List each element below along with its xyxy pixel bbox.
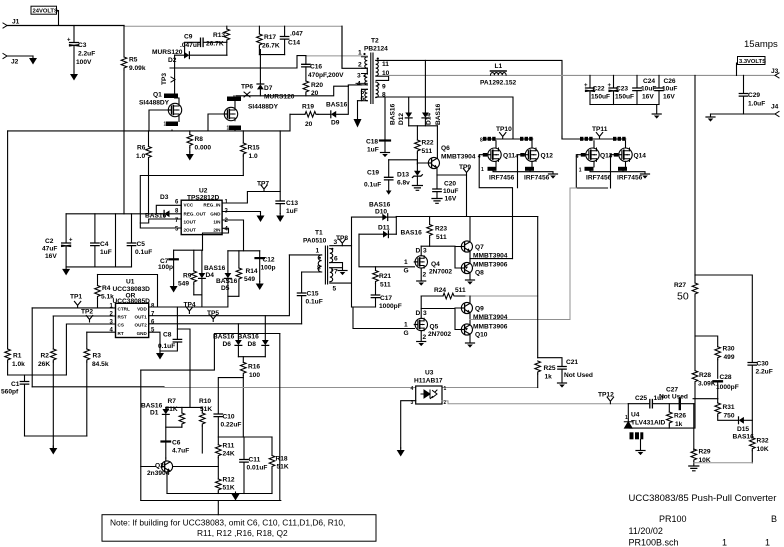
ground U1 arrow xyxy=(156,351,164,360)
svg-text:J4: J4 xyxy=(771,104,779,111)
svg-text:511: 511 xyxy=(436,234,447,241)
svg-text:1: 1 xyxy=(404,259,408,266)
wire Q6 emitter to TP9 xyxy=(437,175,467,217)
wire T2 pin8 net xyxy=(376,97,513,136)
svg-text:549: 549 xyxy=(178,281,189,288)
svg-text:11/20/02: 11/20/02 xyxy=(629,526,663,536)
wire T1 pin5 xyxy=(330,282,351,284)
capacitor C11 xyxy=(240,437,268,494)
svg-text:D: D xyxy=(416,310,421,317)
svg-text:BAS16: BAS16 xyxy=(213,334,235,341)
svg-text:5.1k: 5.1k xyxy=(101,294,114,301)
svg-text:1: 1 xyxy=(404,322,408,329)
node TP9 xyxy=(459,164,471,175)
transistor Q2 (2n3904) xyxy=(147,458,173,494)
svg-text:L1: L1 xyxy=(495,63,503,70)
wire output cap bottom bus xyxy=(590,105,659,115)
resistor R24 xyxy=(421,287,466,299)
svg-text:H11AB17: H11AB17 xyxy=(414,378,443,385)
T1 pin numbers xyxy=(316,239,339,293)
capacitor C13 xyxy=(276,200,298,215)
transistor Q4 (2N7002) xyxy=(404,246,453,281)
resistor R12 xyxy=(216,477,235,494)
ground C7 arrow xyxy=(170,284,178,293)
svg-text:R10: R10 xyxy=(199,398,211,405)
svg-text:MMBT3906: MMBT3906 xyxy=(473,324,508,331)
svg-text:511: 511 xyxy=(455,287,466,294)
svg-text:TP5: TP5 xyxy=(207,310,219,317)
capacitor C24 xyxy=(633,75,657,104)
svg-text:560pf: 560pf xyxy=(1,389,19,396)
wire U2 2IN route xyxy=(203,228,229,250)
svg-text:100p: 100p xyxy=(261,265,276,272)
ground output caps xyxy=(652,114,661,119)
svg-text:D7: D7 xyxy=(264,85,273,92)
wire T2 pin1 stub xyxy=(362,55,368,57)
wire U1 OUT2 pin6 xyxy=(149,323,302,325)
svg-text:R30: R30 xyxy=(723,346,735,353)
svg-text:100V: 100V xyxy=(76,59,92,66)
svg-text:D13: D13 xyxy=(397,172,409,179)
svg-text:D12: D12 xyxy=(398,113,405,125)
svg-text:D2: D2 xyxy=(168,57,177,64)
node TP3 xyxy=(161,73,175,85)
svg-text:10uF: 10uF xyxy=(662,86,677,93)
svg-text:C1: C1 xyxy=(11,381,20,388)
svg-text:C4: C4 xyxy=(100,241,109,248)
ground Q4 xyxy=(417,281,426,286)
svg-text:3: 3 xyxy=(357,73,361,80)
resistor R25 xyxy=(535,361,556,388)
transistor Q1 (SI4488DY) xyxy=(139,92,182,128)
resistor R5 xyxy=(121,57,146,73)
transistor Q14 (IRF7456) xyxy=(613,137,646,182)
svg-text:3: 3 xyxy=(423,310,427,317)
svg-text:3: 3 xyxy=(423,248,427,255)
svg-text:C13: C13 xyxy=(286,200,298,207)
capacitor C17 xyxy=(371,295,401,310)
svg-text:TP7: TP7 xyxy=(257,181,269,188)
svg-text:C11: C11 xyxy=(249,457,261,464)
capacitor C23 xyxy=(608,75,635,104)
svg-text:C28: C28 xyxy=(720,374,732,381)
ground box arrow xyxy=(232,492,240,501)
svg-text:GND: GND xyxy=(137,331,148,336)
svg-text:IRF7456: IRF7456 xyxy=(586,175,612,182)
ground cap bus arrow xyxy=(62,267,70,276)
svg-text:84.5k: 84.5k xyxy=(92,361,109,368)
svg-text:6: 6 xyxy=(151,319,155,325)
wire U1 OUT1 pin7 xyxy=(149,255,290,316)
diode D4 (BAS16) xyxy=(199,250,226,295)
capacitor C20 xyxy=(433,175,459,203)
svg-text:100p: 100p xyxy=(158,264,173,271)
svg-text:C19: C19 xyxy=(367,170,379,177)
title text xyxy=(629,493,778,547)
wire Q13 Q14 drain bus xyxy=(562,136,626,139)
svg-text:1: 1 xyxy=(722,538,727,547)
resistor R21 xyxy=(373,267,392,295)
T2 pin numbers xyxy=(357,50,390,103)
svg-text:TLV431AID: TLV431AID xyxy=(631,420,666,427)
wire drain2 net y95.8 xyxy=(236,86,348,96)
svg-text:1IN: 1IN xyxy=(213,220,221,225)
wire feedback drop from rail xyxy=(694,75,696,275)
transistor Q11 (IRF7456) xyxy=(480,137,515,182)
wire T2 pin4 stub xyxy=(348,85,361,86)
wire R19 left drop xyxy=(289,114,291,131)
wire T2 pins 5-6 tie xyxy=(358,89,362,100)
wire R5 bottom to VCC bus xyxy=(123,70,125,214)
svg-text:1: 1 xyxy=(625,415,628,421)
T2 polarity dots xyxy=(363,53,379,86)
svg-text:+: + xyxy=(67,38,71,44)
svg-text:8: 8 xyxy=(151,303,155,309)
svg-text:47uF: 47uF xyxy=(42,246,57,253)
capacitor C7 xyxy=(158,250,178,284)
svg-text:D8: D8 xyxy=(248,341,257,348)
transistor Q9 (MMBT3904) xyxy=(455,296,508,321)
svg-text:TP8: TP8 xyxy=(336,235,348,242)
wire Q3 gate route xyxy=(208,114,224,131)
svg-text:VCC: VCC xyxy=(184,203,194,208)
svg-text:26.7K: 26.7K xyxy=(206,41,224,48)
wire D5 R14 block xyxy=(228,251,260,307)
svg-text:R11: R11 xyxy=(223,443,235,450)
wire J4 ground run xyxy=(711,113,776,115)
wire R9 D4 block xyxy=(174,250,203,307)
svg-text:11: 11 xyxy=(382,61,389,68)
svg-text:Q11: Q11 xyxy=(503,153,515,160)
svg-text:16V: 16V xyxy=(642,94,654,101)
wire R5 drop from rail xyxy=(123,26,125,58)
wire pin1 grey xyxy=(306,55,362,57)
wire U4 ref net xyxy=(629,427,694,429)
diode D6 (BAS16) xyxy=(213,324,242,357)
capacitor C12 xyxy=(256,251,276,282)
svg-text:PR100B.sch: PR100B.sch xyxy=(629,538,679,547)
node TP1 xyxy=(70,294,82,308)
svg-text:549: 549 xyxy=(244,276,255,283)
resistor R28 xyxy=(692,371,716,388)
svg-text:2: 2 xyxy=(358,62,362,69)
svg-text:6.8v: 6.8v xyxy=(397,180,410,187)
svg-text:1: 1 xyxy=(481,167,484,173)
wire Q2 base link xyxy=(141,466,156,468)
ground Q13 Q14 xyxy=(641,174,650,179)
capacitor C22 xyxy=(584,75,610,104)
svg-text:C14: C14 xyxy=(288,40,300,47)
wire C19 node to R22 base xyxy=(389,159,418,161)
svg-text:1k: 1k xyxy=(545,374,553,381)
svg-text:Not Used: Not Used xyxy=(659,394,688,401)
svg-text:+: + xyxy=(69,238,73,244)
svg-text:MMBT3906: MMBT3906 xyxy=(473,262,508,269)
svg-text:Q14: Q14 xyxy=(634,153,647,160)
capacitor C10 xyxy=(214,378,243,445)
svg-text:1.0uF: 1.0uF xyxy=(748,101,765,108)
svg-text:4: 4 xyxy=(357,81,361,88)
resistor R3 xyxy=(84,332,109,436)
node TP10 xyxy=(496,126,512,139)
Q13 Q14 gate pads xyxy=(576,153,619,160)
svg-text:R25: R25 xyxy=(544,365,556,372)
svg-text:150uF: 150uF xyxy=(591,94,610,101)
svg-text:Q1: Q1 xyxy=(153,92,162,99)
svg-text:TP2: TP2 xyxy=(81,308,93,315)
ground at J4 run xyxy=(710,114,712,117)
svg-text:UCC38085D: UCC38085D xyxy=(113,298,151,305)
ground Q5 xyxy=(417,342,426,347)
svg-text:Q12: Q12 xyxy=(541,153,554,160)
capacitor C9 xyxy=(180,34,227,56)
svg-text:C9: C9 xyxy=(184,34,193,41)
svg-text:3.3VOLTS: 3.3VOLTS xyxy=(739,59,766,65)
wire VCC bus y213.8 xyxy=(66,213,164,215)
svg-text:1uF: 1uF xyxy=(100,249,112,256)
wire R27 to divider xyxy=(694,275,696,428)
wire Q13 Q14 sources xyxy=(590,161,645,174)
svg-text:R13: R13 xyxy=(213,32,225,39)
wire Q11 Q12 drain bus xyxy=(484,137,533,139)
wire Q11 Q12 sources xyxy=(493,161,553,174)
svg-text:7: 7 xyxy=(151,311,155,317)
Q11 Q12 gate pads xyxy=(478,153,525,160)
wire U3 pin3 to ground xyxy=(401,401,416,448)
IC U2 TPS2812D xyxy=(181,188,222,235)
svg-text:R21: R21 xyxy=(379,273,391,280)
ground T2 pin6 arrow xyxy=(354,101,362,128)
svg-text:1: 1 xyxy=(164,122,167,128)
wire Q7 Q8 emitter node to gates xyxy=(470,258,513,260)
svg-text:0.01uF: 0.01uF xyxy=(247,465,268,472)
capacitor C26 xyxy=(655,75,678,104)
svg-text:U3: U3 xyxy=(425,370,434,377)
wire U1 VDD pin8 xyxy=(149,306,228,308)
svg-text:1.0k: 1.0k xyxy=(12,361,25,368)
resistor R20 xyxy=(303,81,323,97)
svg-text:PA0510: PA0510 xyxy=(303,238,327,245)
resistor R11 xyxy=(216,443,235,480)
svg-text:1: 1 xyxy=(358,50,362,57)
svg-text:BAS16: BAS16 xyxy=(204,265,226,272)
svg-text:R27: R27 xyxy=(674,282,686,289)
diode D9 (BAS16) xyxy=(318,86,348,126)
svg-text:BAS16: BAS16 xyxy=(733,434,755,441)
svg-text:10K: 10K xyxy=(757,446,769,453)
wire 24V rail right (thin grey) xyxy=(124,25,342,27)
svg-text:24VOLTS: 24VOLTS xyxy=(33,9,58,15)
svg-text:9: 9 xyxy=(382,84,386,91)
wire bottom left bus xyxy=(25,436,87,448)
svg-text:1000pF: 1000pF xyxy=(716,384,739,391)
svg-text:D10: D10 xyxy=(375,209,387,216)
svg-text:TP11: TP11 xyxy=(592,126,608,133)
ground Q11 Q12 xyxy=(549,174,558,179)
transformer T1 (PA0510) xyxy=(303,230,333,284)
svg-text:C29: C29 xyxy=(748,92,760,99)
svg-text:C15: C15 xyxy=(307,291,319,298)
svg-text:R26: R26 xyxy=(674,413,686,420)
wire Q11 Q12 gate route xyxy=(479,155,525,259)
wire D11 anode to Q4 gate xyxy=(359,234,415,267)
wire U2 1IN route xyxy=(222,220,243,251)
capacitor C25 xyxy=(628,395,694,408)
svg-text:24K: 24K xyxy=(223,451,235,458)
resistor R13 xyxy=(206,26,230,55)
svg-text:BAS16: BAS16 xyxy=(369,202,391,209)
wire Q4 drain bus to Q7 Q8 bases xyxy=(421,246,461,268)
wire bottom ground bus of box xyxy=(167,493,272,495)
svg-text:16V: 16V xyxy=(663,94,675,101)
svg-text:MMBT3904: MMBT3904 xyxy=(441,154,476,161)
resistor R4 xyxy=(95,275,158,308)
svg-text:C27: C27 xyxy=(666,387,678,394)
resistor R30 xyxy=(715,346,735,379)
capacitor C5 xyxy=(127,214,152,267)
ground C20 xyxy=(432,199,442,204)
transistor Q12 (IRF7456) xyxy=(520,137,553,182)
transistor Q6 (MMBT3904) xyxy=(417,126,475,175)
IC U1 UCC38083D xyxy=(113,279,151,338)
ground C21 xyxy=(558,383,567,388)
wire U1 GND pin5 xyxy=(149,332,160,351)
transformer T2 (PB2124) xyxy=(362,38,389,104)
node TP8 xyxy=(336,235,348,246)
svg-text:15amps: 15amps xyxy=(744,39,778,50)
capacitor C28 xyxy=(714,374,739,399)
svg-text:R16: R16 xyxy=(248,364,260,371)
svg-text:B: B xyxy=(771,514,777,524)
resistor R22 xyxy=(415,126,434,164)
svg-text:750: 750 xyxy=(724,413,735,420)
wire ref net drop x693.8 xyxy=(693,404,695,450)
svg-text:IRF7456: IRF7456 xyxy=(524,175,550,182)
resistor R23 xyxy=(427,217,448,247)
svg-text:R31: R31 xyxy=(723,404,735,411)
svg-text:VDD: VDD xyxy=(137,306,147,311)
capacitor C18 xyxy=(366,97,390,154)
svg-text:C2: C2 xyxy=(45,238,54,245)
wire T2 center tap 2-3 xyxy=(342,26,367,74)
diode D3 (BAS16) xyxy=(145,194,181,220)
transistor Q5 (2N7002) xyxy=(404,296,452,342)
wire box right vertical xyxy=(279,334,281,501)
svg-text:50: 50 xyxy=(677,291,689,303)
wire gate net vertical x351.5 xyxy=(351,217,353,307)
svg-text:51K: 51K xyxy=(223,485,235,492)
wire Q9 Q10 emitter node grey xyxy=(470,319,570,321)
svg-text:C24: C24 xyxy=(643,78,655,85)
transistor Q7 (MMBT3904) xyxy=(455,217,508,260)
wire Q3 drain line xyxy=(234,96,235,108)
svg-text:1OUT: 1OUT xyxy=(184,220,196,225)
wire U2 GND pin3 xyxy=(222,212,260,214)
capacitor C21 xyxy=(538,358,593,383)
wire Q11 Q12 drains into fets xyxy=(496,141,532,148)
wire Q1 drain line xyxy=(170,55,179,121)
svg-text:R7: R7 xyxy=(168,398,177,405)
wire box left vertical xyxy=(140,370,142,500)
svg-text:BAS16: BAS16 xyxy=(390,103,397,125)
wire left edge drop xyxy=(7,131,9,349)
note box xyxy=(102,515,376,542)
capacitor C8 xyxy=(158,307,182,351)
svg-text:R18: R18 xyxy=(276,456,288,463)
svg-text:1: 1 xyxy=(316,248,320,255)
diode D8 (BAS16) xyxy=(238,316,269,357)
svg-text:C5: C5 xyxy=(137,241,146,248)
node TP7 xyxy=(257,181,269,192)
resistor R7 xyxy=(166,398,185,427)
svg-text:OUT1: OUT1 xyxy=(135,314,148,319)
svg-text:C3: C3 xyxy=(78,42,87,49)
resistor R6 xyxy=(136,131,151,214)
wire D1 R7 bottom xyxy=(166,427,182,441)
svg-text:9.09k: 9.09k xyxy=(129,65,146,72)
node TP4 xyxy=(184,302,196,314)
ground Q8 xyxy=(466,280,475,285)
svg-text:100: 100 xyxy=(249,372,260,379)
wire R1 C1 bus xyxy=(8,308,67,387)
svg-text:1.0: 1.0 xyxy=(249,153,258,160)
resistor R17 xyxy=(257,26,280,54)
svg-text:R14: R14 xyxy=(246,268,258,275)
wire Q2 right to R11 R12 node xyxy=(173,466,218,468)
svg-text:C23: C23 xyxy=(616,86,628,93)
wire grey feedback mid line xyxy=(32,386,164,388)
svg-text:4.7uF: 4.7uF xyxy=(172,448,189,455)
diode D11 (BAS16) xyxy=(359,225,422,238)
svg-text:SI4488DY: SI4488DY xyxy=(139,100,170,107)
diode D12 (BAS16) xyxy=(390,97,413,126)
svg-text:BAS16: BAS16 xyxy=(401,230,423,237)
wire sense net vertical x537.7 xyxy=(537,217,539,358)
svg-text:+: + xyxy=(584,83,588,89)
diode D14 (BAS16) xyxy=(422,60,442,125)
wire box bottom xyxy=(141,501,281,515)
svg-text:Q9: Q9 xyxy=(475,306,484,313)
inductor L1 (PA1292.152) xyxy=(480,63,517,87)
node TP2 xyxy=(81,308,93,322)
svg-text:CTRL: CTRL xyxy=(118,306,130,311)
diode D1 (BAS16) xyxy=(141,403,169,428)
svg-text:Q8: Q8 xyxy=(475,270,484,277)
U2 pin numbers xyxy=(175,200,229,233)
wire 24V rail left (black) xyxy=(7,25,124,27)
svg-text:RST: RST xyxy=(118,314,127,319)
svg-text:2OUT: 2OUT xyxy=(184,228,196,233)
svg-text:0.000: 0.000 xyxy=(195,145,212,152)
svg-text:6: 6 xyxy=(334,256,338,263)
wire U1 CTRL pin1 xyxy=(32,307,115,309)
resistor R29 xyxy=(691,449,711,467)
transistor Q8 (MMBT3906) xyxy=(461,259,507,280)
svg-text:R19: R19 xyxy=(302,104,314,111)
svg-text:D9: D9 xyxy=(331,120,340,127)
resistor R32 xyxy=(750,438,769,463)
svg-text:GND: GND xyxy=(210,211,221,216)
wire D1 R7 R10 top bus xyxy=(166,329,203,407)
svg-text:TP12: TP12 xyxy=(598,392,614,399)
transistor Q3 (SI4488DY) xyxy=(224,97,278,132)
wire R30 branch xyxy=(695,336,718,347)
svg-text:R5: R5 xyxy=(129,57,138,64)
resistor R19 xyxy=(290,104,318,129)
svg-text:R23: R23 xyxy=(435,226,447,233)
wire top jog to C30 xyxy=(695,275,752,362)
svg-text:26.7K: 26.7K xyxy=(262,43,280,50)
